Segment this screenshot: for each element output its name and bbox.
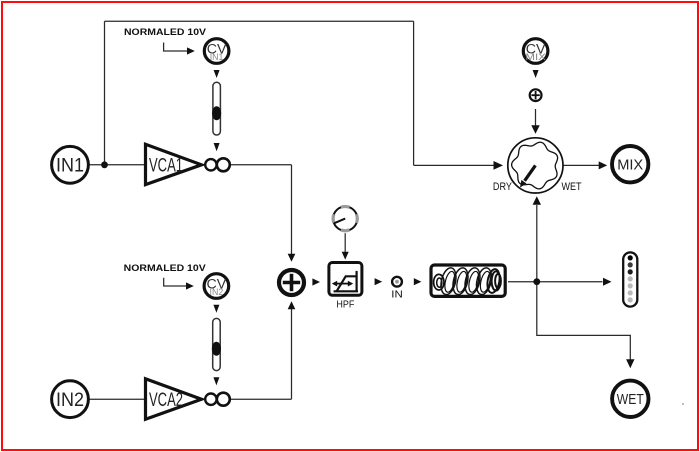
arrowhead adder to HPF xyxy=(312,278,320,285)
elbow arrow to CV IN2 xyxy=(164,278,186,286)
jack CV MIX xyxy=(523,39,548,64)
wire junction down to WET output xyxy=(537,282,631,360)
svg-text:WET: WET xyxy=(617,392,644,408)
wire junction up segment xyxy=(104,21,106,165)
wire dry path into mix knob xyxy=(414,164,495,166)
arrowhead HPF to IN jack xyxy=(375,278,383,285)
wire VCA2 output right xyxy=(229,398,292,400)
wire CVMIX adder to mix knob xyxy=(535,109,537,126)
svg-text:DRY: DRY xyxy=(493,181,512,193)
input jack IN1 xyxy=(52,146,89,183)
reverb tank input jack IN xyxy=(391,277,403,301)
stray dot artifact xyxy=(682,403,684,405)
arrowhead CV IN2 to slider xyxy=(213,305,219,313)
svg-text:MIX: MIX xyxy=(525,52,546,62)
svg-text:VCA1: VCA1 xyxy=(149,156,183,177)
svg-text:IN1: IN1 xyxy=(210,52,224,62)
VCA1 gain-cell twin circles xyxy=(205,158,230,171)
amplifier VCA2 xyxy=(146,379,202,419)
elbow arrow to CV IN1 xyxy=(164,43,187,52)
wire dry path down segment xyxy=(413,21,415,165)
output jack MIX xyxy=(612,146,648,182)
junction dot at IN1 split xyxy=(101,161,108,168)
arrowhead CV into VCA2 xyxy=(213,377,219,385)
svg-text:IN2: IN2 xyxy=(56,390,84,411)
svg-text:HPF: HPF xyxy=(336,300,354,311)
svg-text:VCA2: VCA2 xyxy=(149,390,183,411)
arrowhead CV IN1 to slider xyxy=(214,70,220,78)
svg-text:NORMALED 10V: NORMALED 10V xyxy=(124,27,207,38)
wire VCA1 output down into adder xyxy=(291,165,293,254)
small summing node for CV MIX xyxy=(530,89,542,101)
input jack IN2 xyxy=(52,381,89,418)
svg-text:MIX: MIX xyxy=(617,158,643,174)
svg-text:WET: WET xyxy=(562,181,582,193)
output jack WET xyxy=(612,381,648,417)
LED level meter xyxy=(623,252,637,306)
summing node (adder) xyxy=(279,270,304,295)
wire VCA1 output right xyxy=(229,164,292,166)
wire IN1 to VCA1 xyxy=(89,164,146,166)
jack CV IN1 xyxy=(204,39,229,64)
arrowhead CV MIX to adder xyxy=(533,70,539,78)
dry/wet mix knob xyxy=(508,138,563,193)
wire VCA2 output up into adder xyxy=(291,309,293,399)
arrow knob into HPF xyxy=(344,233,346,252)
VCA2 gain-cell twin circles xyxy=(205,393,230,406)
svg-text:NORMALED 10V: NORMALED 10V xyxy=(124,263,207,274)
junction dot after tank xyxy=(533,278,540,285)
amplifier VCA1 xyxy=(146,144,202,184)
wire IN2 to VCA2 xyxy=(89,398,146,400)
jack CV IN2 xyxy=(204,274,229,299)
wire mix knob to MIX output xyxy=(564,164,601,166)
arrowhead IN jack to tank xyxy=(414,278,422,285)
spring reverb tank xyxy=(431,265,505,296)
svg-text:IN: IN xyxy=(391,289,403,300)
arrowhead CV into VCA1 xyxy=(214,143,220,151)
wire junction up to mix knob wet input xyxy=(536,205,538,282)
HPF cutoff knob xyxy=(333,207,357,231)
slider attenuator IN2 xyxy=(212,318,221,370)
svg-text:IN2: IN2 xyxy=(210,287,224,297)
wire top dry path horizontal xyxy=(105,20,414,22)
wire tank output to junction and meter xyxy=(508,281,603,283)
svg-text:IN1: IN1 xyxy=(56,156,84,177)
filter block HPF xyxy=(329,263,362,296)
slider attenuator IN1 xyxy=(212,82,221,135)
